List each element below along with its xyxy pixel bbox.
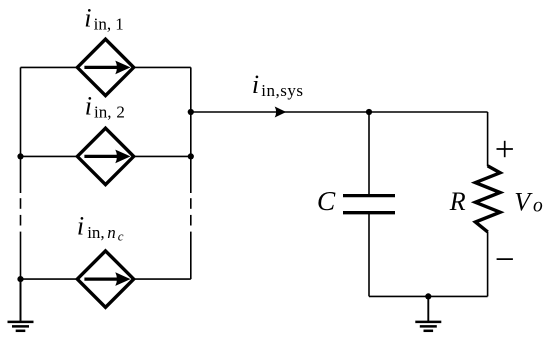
svg-text:in,: in, xyxy=(94,102,111,121)
junction dot bottom wire at ground xyxy=(425,293,431,299)
wire row1 left: left rail to source 1 xyxy=(21,66,78,68)
svg-text:in,sys: in,sys xyxy=(261,81,303,100)
svg-text:n: n xyxy=(107,223,116,242)
wire left rail upper segment xyxy=(20,67,22,193)
svg-text:in,: in, xyxy=(94,15,111,34)
label + polarity xyxy=(497,141,513,157)
svg-text:c: c xyxy=(118,229,124,244)
current source i_in,nc xyxy=(77,251,133,307)
label i_in,nc xyxy=(77,212,124,244)
wire left ground stem xyxy=(20,279,22,321)
junction dot capacitor branch top xyxy=(366,109,372,115)
capacitor C xyxy=(343,196,395,213)
svg-text:i: i xyxy=(77,212,84,241)
wire capacitor branch bottom xyxy=(368,213,370,297)
junction dot right rail row2 xyxy=(188,153,194,159)
wire main output i_in,sys xyxy=(191,111,488,113)
resistor R xyxy=(475,166,500,232)
svg-text:1: 1 xyxy=(115,15,124,34)
wire resistor branch bottom xyxy=(487,232,489,297)
wire right rail upper segment xyxy=(190,67,192,193)
wire right rail dashed segment xyxy=(190,198,192,225)
svg-text:i: i xyxy=(84,3,91,32)
svg-text:R: R xyxy=(449,187,466,216)
svg-text:C: C xyxy=(317,185,336,216)
wire bottom: capacitor to resistor xyxy=(369,295,488,297)
svg-text:2: 2 xyxy=(116,102,125,121)
label Vo xyxy=(514,188,543,217)
ground right xyxy=(415,322,441,331)
junction dot left rail row3 xyxy=(17,276,23,282)
wire right rail lower segment xyxy=(190,232,192,280)
wire capacitor branch top xyxy=(368,112,370,196)
wire row3 left: left rail to source nc xyxy=(21,278,78,280)
wire left rail dashed segment xyxy=(20,198,22,225)
svg-text:o: o xyxy=(533,196,543,217)
svg-text:in,: in, xyxy=(87,223,104,242)
label i_in,2 xyxy=(85,92,125,122)
wire resistor branch top xyxy=(487,112,489,166)
current source i_in,2 xyxy=(77,128,133,184)
current source i_in,1 xyxy=(77,39,133,95)
ground left xyxy=(8,322,34,331)
svg-text:i: i xyxy=(85,92,92,121)
wire row2 right: source 2 to right rail xyxy=(134,155,191,157)
svg-text:i: i xyxy=(252,70,259,99)
label i_in,sys xyxy=(252,70,304,100)
wire row1 right: source 1 to right rail xyxy=(134,66,191,68)
wire right ground stem xyxy=(427,296,429,321)
junction dot right rail at output xyxy=(188,109,194,115)
label i_in,1 xyxy=(84,3,124,33)
arrowhead on wire i_in,sys xyxy=(275,107,287,118)
wire row2 left: left rail to source 2 xyxy=(21,155,78,157)
label - polarity xyxy=(497,258,513,260)
wire row3 right: source nc to right rail xyxy=(134,278,191,280)
junction dot left rail row2 xyxy=(17,153,23,159)
wire left rail lower segment down to ground xyxy=(20,232,22,321)
